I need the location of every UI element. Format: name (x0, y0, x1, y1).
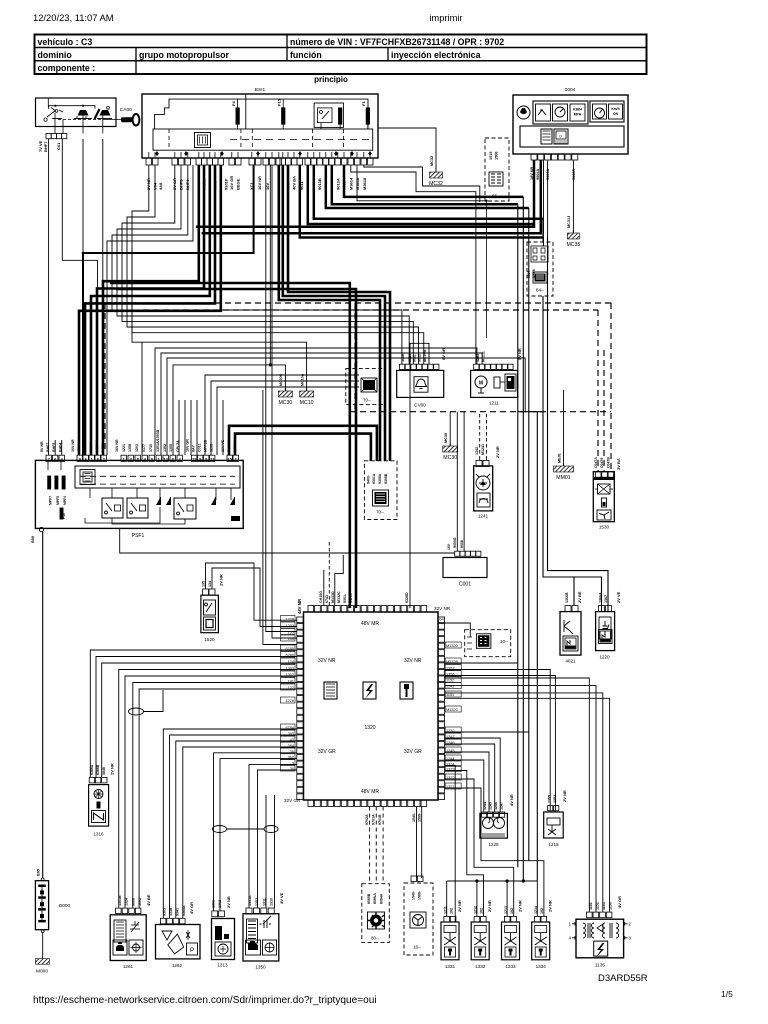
wire BSI thin to PSF1 pin (107, 165, 193, 455)
svg-text:9308B: 9308B (384, 473, 388, 484)
ECU top wires (323, 570, 325, 606)
wire bundle BSI right exits (344, 165, 523, 197)
unit 4021 box (560, 612, 581, 656)
wire vertical 547 down (547, 238, 549, 297)
svg-text:1152: 1152 (596, 902, 600, 910)
svg-text:1332: 1332 (475, 964, 486, 969)
wire bundle BSI thick to PSF1 (103, 165, 199, 455)
wire cluster pin3 to 84 box (547, 160, 549, 246)
svg-text:62PR: 62PR (101, 443, 105, 452)
wire MC30 feed (173, 365, 285, 455)
svg-text:1352: 1352 (163, 444, 167, 452)
dashed component box 84 (527, 242, 553, 296)
svg-text:1/5: 1/5 (721, 989, 733, 999)
svg-text:V1H0-: V1H0- (349, 592, 353, 603)
svg-text:1338: 1338 (169, 908, 173, 916)
wire MC10 feed (132, 248, 307, 391)
svg-text:12: 12 (192, 456, 197, 461)
svg-text:2V NR: 2V NR (487, 900, 492, 912)
svg-text:MC35: MC35 (566, 242, 580, 248)
fuel pump 1211 box (471, 370, 518, 397)
svg-text:M132C: M132C (337, 591, 341, 603)
svg-text:9301P: 9301P (224, 178, 229, 190)
wire switch internal drops (47, 99, 49, 108)
coil lightning icon (594, 941, 608, 956)
wire PSF1 risers to 70 upper box (205, 375, 359, 455)
svg-text:vehículo : C3: vehículo : C3 (38, 37, 93, 47)
wire 1520 to ECU (206, 563, 298, 620)
svg-text:4V VE: 4V VE (279, 892, 284, 904)
PSF1 fuse carrier (75, 466, 240, 488)
svg-text:1515: 1515 (489, 152, 493, 160)
svg-text:15: 15 (227, 456, 232, 461)
wire PSF1 to C001 (120, 529, 455, 554)
svg-text:1358: 1358 (128, 444, 132, 452)
svg-text:9011: 9011 (413, 354, 417, 362)
BSI pin diamonds (155, 151, 159, 156)
1530 fan icon (597, 510, 611, 520)
svg-text:101E: 101E (401, 353, 405, 362)
svg-text:M132C: M132C (446, 708, 458, 712)
svg-text:MPF3B: MPF3B (204, 439, 208, 452)
wire cluster pin2 west thick (202, 160, 541, 233)
dashed component box 10 (465, 630, 511, 657)
svg-text:2V NR: 2V NR (495, 446, 500, 458)
PSF1 relay 3 (174, 498, 196, 519)
PSF1 ground bar (231, 516, 240, 521)
wire 65 down (486, 201, 488, 338)
svg-text:2V NR: 2V NR (562, 790, 567, 802)
svg-text:1153: 1153 (602, 902, 606, 910)
70 lower display icon (373, 490, 389, 506)
svg-text:1599-: 1599- (418, 812, 422, 822)
svg-text:9012: 9012 (418, 354, 422, 362)
wire ECU 1357 to 1215 (445, 670, 551, 813)
svg-text:1540-: 1540- (412, 812, 416, 822)
wire ECU to 1261 (119, 670, 297, 909)
svg-text:M1211: M1211 (482, 351, 486, 362)
16 fan icon (410, 912, 426, 928)
ECU bottom dashed wires to 80 (369, 807, 371, 884)
svg-text:1221: 1221 (122, 444, 126, 452)
svg-text:4021: 4021 (565, 659, 576, 664)
svg-text:32V GR: 32V GR (318, 749, 336, 755)
1225 pins (482, 812, 487, 817)
wire ECU to CV00 right pin (410, 343, 429, 608)
PSF1 fuses MPF (48, 476, 51, 489)
ECU injector icon (400, 682, 413, 699)
svg-text:48V MR: 48V MR (361, 621, 379, 627)
dashed component box 70 lower (364, 461, 397, 520)
PSF1 box (35, 460, 243, 528)
svg-text:2V NR: 2V NR (110, 763, 115, 775)
wire bundle BSI left thin nested to CV00 (132, 165, 424, 364)
svg-text:8V NR: 8V NR (517, 348, 522, 360)
wire stubs PSF1 pins 6 4 (54, 440, 56, 455)
wire vertical 523 bus feed (522, 197, 524, 881)
svg-text:1599-: 1599- (418, 890, 422, 900)
svg-text:1355: 1355 (169, 444, 173, 452)
svg-text:ON: ON (613, 112, 619, 116)
svg-text:B00: B00 (31, 536, 35, 543)
svg-text:9701A: 9701A (372, 814, 376, 825)
wire BSI to 65 connector with jog (364, 165, 480, 202)
dashed boundary left (104, 303, 106, 450)
CV00 pin row (400, 364, 405, 369)
injector 1332 pins (474, 916, 480, 922)
svg-text:1151: 1151 (446, 693, 454, 697)
wire thick corners into 70 lower (229, 426, 377, 461)
svg-text:imprimir: imprimir (429, 12, 462, 23)
wire BSI to 65 long wire to 1211 (357, 165, 487, 201)
svg-text:9013A: 9013A (336, 178, 341, 190)
1215 pins (548, 806, 553, 811)
1262 pins (160, 918, 166, 924)
wire ECU to 1350 (249, 764, 297, 908)
svg-text:1: 1 (569, 922, 572, 927)
shield drain wire (227, 828, 265, 830)
PSF1 internal wires (47, 461, 49, 470)
svg-text:MC31J: MC31J (567, 216, 571, 228)
svg-text:1362: 1362 (218, 900, 222, 908)
svg-text:1225: 1225 (488, 842, 499, 847)
ground MC35 (572, 160, 574, 233)
svg-text:4V GR: 4V GR (189, 902, 194, 914)
wire 1220 second (598, 577, 602, 611)
cluster gauge group left (533, 101, 588, 124)
wire ECU to coil 1135 (445, 678, 590, 912)
svg-text:2V NR: 2V NR (518, 900, 523, 912)
svg-text:1367: 1367 (604, 595, 608, 603)
dashed component box 80 (362, 884, 390, 943)
1530 valve icon (598, 484, 611, 494)
svg-text:F16: F16 (62, 513, 66, 519)
svg-text:1313: 1313 (217, 963, 228, 968)
1530 pin row (596, 472, 602, 478)
BSI1 inner left box (155, 99, 368, 129)
svg-text:9701B: 9701B (378, 814, 382, 825)
dashed boundary right verticals to fan 1530 (610, 303, 612, 472)
svg-text:2V NR: 2V NR (548, 900, 553, 912)
70 upper icon (361, 378, 377, 392)
svg-text:CPL7A: CPL7A (176, 440, 180, 452)
injector 1331 box (441, 922, 459, 960)
coil windings (583, 923, 586, 938)
cluster gauge group right (590, 101, 624, 122)
svg-text:1245: 1245 (489, 802, 493, 810)
svg-text:PSF1: PSF1 (132, 533, 145, 539)
svg-text:BEGE: BEGE (236, 178, 241, 190)
svg-text:MPF4: MPF4 (63, 496, 67, 505)
svg-text:BHF4: BHF4 (59, 443, 63, 452)
svg-text:ME01: ME01 (558, 453, 562, 463)
svg-text:1211: 1211 (489, 401, 499, 406)
svg-text:C0479: C0479 (600, 458, 604, 468)
1241 pin row (476, 461, 482, 467)
svg-text:1334: 1334 (536, 964, 547, 969)
1211 pin row (474, 364, 479, 369)
svg-text:https://escheme-networkservice: https://escheme-networkservice.citroen.c… (33, 995, 377, 1006)
1530 small icon (602, 498, 607, 507)
battery charge 1241 box (474, 466, 493, 511)
svg-text:C047B: C047B (607, 457, 611, 468)
svg-text:8094A: 8094A (380, 893, 384, 904)
65 component icon (489, 172, 503, 186)
svg-text:MM01: MM01 (556, 475, 571, 481)
svg-text:MPH: MPH (574, 113, 582, 117)
ECU lightning icon (363, 682, 376, 699)
wire ECU to 1313 (214, 753, 297, 911)
wire cluster pin1 west thick (196, 160, 534, 227)
svg-text:134: 134 (288, 637, 294, 641)
svg-text:1002: 1002 (138, 898, 142, 906)
ECU chip icon (324, 682, 337, 699)
svg-text:B000: B000 (59, 903, 71, 909)
svg-text:9364A: 9364A (182, 905, 186, 916)
ground MM01 (563, 390, 565, 466)
wire vertical 528 down (528, 208, 530, 861)
svg-text:KM/H: KM/H (573, 108, 582, 112)
wire thick BSI pin west turn (83, 165, 254, 455)
injector 1334 box (532, 922, 550, 960)
svg-text:componente :: componente : (38, 63, 96, 73)
wire ECU 1232 down (445, 731, 529, 733)
svg-text:192: 192 (540, 908, 544, 914)
ECU top pin strip (308, 606, 314, 613)
canister unit 1261 box (110, 915, 146, 961)
svg-text:134: 134 (208, 581, 212, 587)
svg-text:CA00: CA00 (120, 107, 132, 113)
svg-text:3V BA: 3V BA (616, 458, 621, 470)
svg-text:84--: 84-- (536, 288, 545, 293)
wire PSF1 to battery (42, 532, 44, 878)
svg-text:M000: M000 (36, 968, 48, 974)
svg-text:MC30: MC30 (444, 433, 448, 443)
PSF1 small relays (156, 497, 161, 505)
svg-text:1352: 1352 (553, 795, 557, 803)
svg-text:135: 135 (288, 631, 294, 635)
svg-text:4V GR: 4V GR (617, 896, 622, 908)
svg-text:32V NR: 32V NR (318, 658, 336, 664)
svg-text:1351B: 1351B (118, 895, 122, 906)
svg-text:MPF3A: MPF3A (233, 439, 237, 452)
switch top bus wire (49, 106, 95, 109)
svg-text:9308A: 9308A (378, 473, 382, 484)
wire BSI to 1211 long with jog (351, 165, 476, 364)
svg-text:grupo motopropulsor: grupo motopropulsor (139, 50, 229, 60)
ECU right pin strip (438, 617, 444, 623)
svg-text:9008: 9008 (460, 540, 464, 548)
svg-text:1333: 1333 (505, 964, 516, 969)
engine ECU 1320 box (304, 612, 439, 800)
instrument cluster 0004 box (513, 95, 628, 154)
switch contact 2 (78, 110, 89, 116)
ground MC32 (378, 128, 436, 172)
1261 pins (116, 908, 122, 914)
PSF1 battery node (39, 527, 43, 531)
svg-text:6386B: 6386B (96, 764, 100, 775)
svg-text:MPF5: MPF5 (56, 496, 60, 505)
svg-text:1261: 1261 (123, 964, 134, 969)
PSF1 relay 1 (102, 498, 123, 518)
svg-text:M1241: M1241 (481, 444, 485, 455)
wire ECU 104 to 10 box (445, 623, 471, 637)
injector 1333 pins (504, 916, 510, 922)
svg-text:2V BE: 2V BE (577, 591, 582, 603)
1220 pins (599, 606, 605, 612)
4021 pins (565, 606, 571, 612)
injector 1332 box (471, 922, 489, 960)
wire CA00 pin1 down to PSF1 (48, 139, 50, 455)
svg-text:1220: 1220 (599, 655, 610, 660)
svg-text:2V NR: 2V NR (226, 896, 231, 908)
svg-text:M3618: M3618 (355, 177, 360, 190)
svg-text:inyección electrónica: inyección electrónica (391, 50, 481, 60)
svg-text:48V MR: 48V MR (361, 789, 379, 795)
wire vertical 517 down (517, 204, 519, 867)
svg-text:BHF7: BHF7 (43, 141, 48, 152)
dashed component box 65 (485, 138, 509, 201)
ECU bottom pin strip (308, 800, 314, 807)
coil pins (587, 912, 593, 918)
PSF1 pin row (46, 455, 51, 461)
shield ellipse 1313 pair (213, 826, 227, 833)
svg-text:1247: 1247 (500, 802, 504, 810)
svg-text:8065B: 8065B (367, 893, 371, 904)
svg-text:1213: 1213 (504, 906, 508, 914)
10 display icon (476, 634, 491, 649)
svg-text:1350: 1350 (255, 965, 266, 970)
fuse F15 (282, 108, 285, 124)
svg-text:1203: 1203 (135, 444, 139, 452)
dashed boundary mid verticals (354, 303, 356, 412)
svg-text:9341: 9341 (176, 908, 180, 916)
svg-text:809NA: 809NA (373, 893, 377, 904)
svg-text:0177: 0177 (142, 444, 146, 452)
svg-text:1244: 1244 (483, 802, 487, 810)
connector C01 pin strip (46, 134, 51, 139)
svg-text:1352: 1352 (255, 898, 259, 906)
cluster display icon (554, 129, 568, 144)
svg-text:32V NR: 32V NR (434, 606, 451, 611)
wire ECU 1356 to 1215 (445, 676, 556, 813)
svg-text:2: 2 (629, 922, 632, 927)
cluster airbag lamp circle (517, 106, 530, 119)
throttle unit 1225 box (480, 813, 508, 838)
wire CA00 pin3 down (82, 139, 84, 253)
svg-text:M133D: M133D (331, 591, 335, 603)
svg-text:192: 192 (480, 908, 484, 914)
svg-text:CH15G: CH15G (319, 591, 323, 603)
svg-text:3: 3 (629, 936, 632, 941)
svg-text:M1320: M1320 (446, 644, 458, 648)
C001 pin wires (456, 412, 458, 552)
svg-text:M3614: M3614 (349, 177, 354, 190)
svg-text:BHF5: BHF5 (52, 443, 56, 452)
svg-text:1229: 1229 (286, 618, 294, 622)
wire riser to ECU pin 6785 (263, 390, 297, 645)
clutch switch 1520 box (201, 595, 219, 633)
cooling fan 1530 box (593, 472, 614, 522)
svg-text:6743: 6743 (325, 595, 329, 603)
svg-text:C011: C011 (198, 444, 202, 452)
svg-text:192: 192 (450, 908, 454, 914)
svg-text:1241: 1241 (478, 514, 489, 519)
svg-text:3648: 3648 (102, 767, 106, 775)
dashed boundary lower horizontal (350, 411, 611, 413)
svg-text:70--: 70-- (376, 510, 384, 515)
wire thick trio BSI to 70 lower box (279, 165, 380, 461)
svg-text:12/20/23, 11:07 AM: 12/20/23, 11:07 AM (33, 12, 114, 23)
battery B0000 (35, 881, 48, 930)
wire vertical 543 upper (542, 219, 544, 242)
wire thick pair PSF1 to ECU top (110, 283, 350, 608)
unit 1220 box (596, 612, 615, 651)
svg-text:1351A/1353B: 1351A/1353B (156, 429, 160, 452)
injector 1334 pins (535, 916, 541, 922)
svg-text:1366B: 1366B (565, 592, 569, 603)
ECU bottom wires to 16 connector (416, 807, 418, 879)
alarm siren CV00 box (397, 370, 444, 397)
svg-text:1203: 1203 (286, 624, 294, 628)
svg-text:48V MR: 48V MR (297, 599, 302, 614)
svg-text:70--: 70-- (363, 398, 371, 403)
svg-text:9400-: 9400- (367, 474, 371, 484)
svg-text:1135: 1135 (595, 963, 605, 968)
1241 dashed wires (479, 414, 481, 456)
svg-text:80--: 80-- (371, 936, 379, 941)
svg-text:C001: C001 (459, 582, 471, 588)
svg-text:1324: 1324 (125, 898, 129, 906)
svg-text:9012A: 9012A (89, 441, 93, 452)
84 connector icon (531, 246, 548, 262)
svg-text:9301A: 9301A (372, 473, 376, 484)
cluster pin row (531, 154, 537, 160)
ground MC30 right (449, 412, 451, 446)
svg-text:1320: 1320 (364, 725, 375, 731)
ignition unit 1350 box (243, 914, 279, 961)
svg-text:16V GR: 16V GR (186, 439, 190, 452)
svg-text:16V VE: 16V VE (221, 439, 225, 452)
svg-text:1351A: 1351A (248, 895, 252, 906)
svg-text:número de VIN : VF7FCHFXB26731: número de VIN : VF7FCHFXB26731148 / OPR … (290, 37, 504, 47)
ground MC30 mid (284, 388, 286, 391)
ECU left pin strip (297, 617, 303, 623)
svg-text:9000G: 9000G (453, 537, 457, 548)
svg-text:función: función (290, 50, 322, 60)
wire PSF1 pin risers mid (141, 342, 143, 455)
dashed boundary top (105, 302, 611, 304)
BSI1 outer box (142, 94, 378, 158)
ECU left pin numbers (281, 616, 296, 622)
svg-text:MPF7: MPF7 (49, 496, 53, 505)
PSF1 relay 2 (127, 498, 148, 518)
wire ECU to injectors staircase (445, 766, 456, 923)
svg-text:CAV3A: CAV3A (227, 440, 231, 452)
1313 pins (212, 911, 218, 917)
svg-text:8A7: 8A7 (192, 445, 196, 452)
injector 1331 pins (444, 916, 450, 922)
wire PSF1 risers short (178, 400, 180, 455)
svg-text:1530: 1530 (599, 525, 610, 530)
svg-text:1211: 1211 (444, 906, 448, 914)
wire 84 to 4021 riser pair (543, 296, 574, 605)
svg-text:M: M (479, 381, 483, 387)
svg-text:1508: 1508 (495, 152, 499, 160)
valve 1215 box (544, 812, 564, 838)
svg-text:6V GR: 6V GR (441, 348, 446, 360)
svg-text:1262: 1262 (172, 963, 183, 968)
